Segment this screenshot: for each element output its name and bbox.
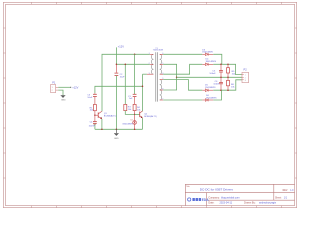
resistor R4 — [133, 104, 141, 114]
capacitor C6 (output -) — [213, 77, 223, 90]
svg-text:P2: P2 — [244, 68, 248, 72]
node: -V junctions — [220, 89, 222, 91]
svg-text:3: 3 — [149, 73, 150, 75]
ground (P1) — [61, 95, 66, 97]
node: junction +12V / center-tap — [116, 64, 118, 66]
primary winding arcs — [151, 54, 153, 74]
svg-text:3: 3 — [245, 80, 246, 82]
node: rail junction D1 — [134, 129, 136, 131]
connector P2 — [242, 68, 249, 83]
border ticks left — [3, 28, 5, 178]
svg-text:2: 2 — [52, 90, 53, 92]
capacitor C4 (under Q1 base) — [89, 115, 97, 129]
svg-text:2: 2 — [149, 63, 150, 65]
primary pin stubs — [150, 53, 154, 55]
wire secondary B1 jog down to D5 — [163, 80, 202, 91]
svg-text:+12V: +12V — [72, 85, 78, 89]
wire D3 to +V node — [213, 54, 222, 64]
node: rail junction Q1 emitter — [101, 129, 103, 131]
secondary pin stubs — [160, 53, 164, 55]
svg-text:1N4148WS: 1N4148WS — [205, 87, 216, 89]
resistor R5 — [227, 64, 237, 77]
node: junction cross-coupling C1 on collector rail — [134, 54, 136, 56]
svg-text:Title:: Title: — [186, 185, 190, 188]
wire secondary A2 center tap down — [163, 64, 176, 90]
resistor R6 — [227, 77, 236, 90]
border ticks right — [295, 28, 297, 178]
svg-text:blog.avislab.com: blog.avislab.com — [221, 197, 240, 200]
wire P1 pin2 to ground — [58, 90, 63, 95]
resistor R1 — [90, 105, 97, 116]
svg-text:2023-04-11: 2023-04-11 — [220, 202, 233, 205]
svg-text:+12V: +12V — [118, 45, 124, 49]
wire center tap rail — [116, 63, 149, 65]
svg-text:P1: P1 — [52, 80, 56, 84]
wire P1 pin1 to +12V label — [58, 86, 70, 88]
svg-text:Date:: Date: — [208, 202, 214, 205]
wire cross-coupling Q2-collector to C3 — [142, 74, 144, 111]
svg-text:Sheet:: Sheet: — [275, 196, 282, 199]
node: Q2 base junction — [134, 114, 135, 115]
svg-text:1N4148WS: 1N4148WS — [122, 123, 133, 125]
svg-text:10uF: 10uF — [120, 77, 126, 79]
svg-text:DC-DC for IGBT Drivers: DC-DC for IGBT Drivers — [200, 188, 234, 192]
ground (main) — [114, 129, 119, 135]
svg-text:1N4148WS: 1N4148WS — [202, 52, 213, 54]
node: +V junctions — [220, 64, 222, 66]
resistor R3 — [124, 104, 135, 114]
svg-text:1: 1 — [245, 75, 246, 77]
svg-text:D1: D1 — [131, 120, 133, 122]
node: COM junctions — [220, 77, 222, 79]
wire +12V stub — [115, 47, 117, 64]
wire collector rail Q1 to T1 pin1 — [102, 54, 150, 111]
diode D3 — [202, 49, 213, 55]
title block — [185, 184, 294, 205]
svg-text:10nF: 10nF — [87, 97, 93, 99]
diode D1 (circle style) — [122, 114, 136, 129]
wire bottom emitter rail — [95, 128, 143, 130]
transistor Q1 — [95, 111, 117, 119]
node: junction R3 top — [125, 64, 127, 66]
wire +V rail to P2 pin1 — [213, 64, 242, 74]
svg-text:1N4148WS: 1N4148WS — [206, 98, 217, 100]
svg-text:BC846(ALT1): BC846(ALT1) — [104, 115, 117, 118]
border ticks bottom — [32, 206, 282, 208]
transformer T1 — [147, 48, 164, 102]
svg-text:1: 1 — [52, 87, 53, 89]
svg-text:750313638: 750313638 — [153, 50, 164, 52]
svg-text:100nF: 100nF — [213, 83, 220, 85]
capacitor C3 — [87, 93, 96, 104]
core — [155, 52, 157, 101]
svg-text:1uF: 1uF — [93, 124, 96, 126]
secondary winding B arcs — [160, 80, 162, 100]
secondary winding A arcs — [160, 54, 162, 74]
svg-text:EDA: EDA — [202, 198, 209, 202]
logo EasyEDA — [188, 198, 210, 202]
svg-text:100nF: 100nF — [209, 73, 216, 75]
wire base-coupling line y86.3 — [95, 86, 143, 93]
capacitor C5 (output +) — [209, 64, 223, 77]
border frame — [3, 2, 296, 207]
svg-text:andreykoryagin: andreykoryagin — [259, 202, 277, 205]
svg-text:1: 1 — [149, 53, 150, 55]
capacitor C1 (cross coupling) — [128, 94, 137, 104]
diode D6 — [202, 95, 217, 101]
wire secondary B3 to D6 — [163, 99, 202, 101]
wire Q2 emitter down — [142, 118, 144, 129]
transistor Q2 — [135, 111, 157, 118]
wire Q1 emitter down — [101, 119, 103, 129]
node: COM junction — [176, 77, 178, 79]
svg-text:REV:: REV: — [283, 190, 289, 192]
node: rail junction GND — [116, 129, 118, 131]
svg-text:GND: GND — [61, 99, 66, 101]
diode D5 — [202, 85, 216, 92]
pin numbers — [149, 53, 164, 101]
node: Q1 base junction — [94, 115, 95, 116]
wire D6 riser to -V rail — [213, 90, 221, 100]
wire R3 top lead from center-tap rail — [124, 64, 126, 104]
wire -V rail to P2 pin3 — [213, 80, 242, 90]
wire COM rail to P2 — [177, 76, 242, 78]
capacitor C2 (decoupling, middle column) — [115, 64, 126, 129]
wire secondary A3 jog up to D4 — [163, 64, 202, 74]
svg-text:GND: GND — [114, 138, 119, 140]
border ticks top — [32, 2, 282, 4]
svg-text:Company:: Company: — [208, 197, 220, 200]
wire secondary A1 to D3 — [163, 53, 202, 55]
node: junction on Q2 collector — [142, 86, 144, 88]
svg-text:BC846(ALT1): BC846(ALT1) — [144, 115, 157, 118]
connector P1 — [51, 80, 59, 92]
svg-text:1N4148WS: 1N4148WS — [206, 61, 217, 63]
svg-text:Drawn By:: Drawn By: — [244, 202, 256, 205]
diode D4 — [202, 59, 216, 66]
wire C1 lead from collector rail — [134, 54, 136, 94]
